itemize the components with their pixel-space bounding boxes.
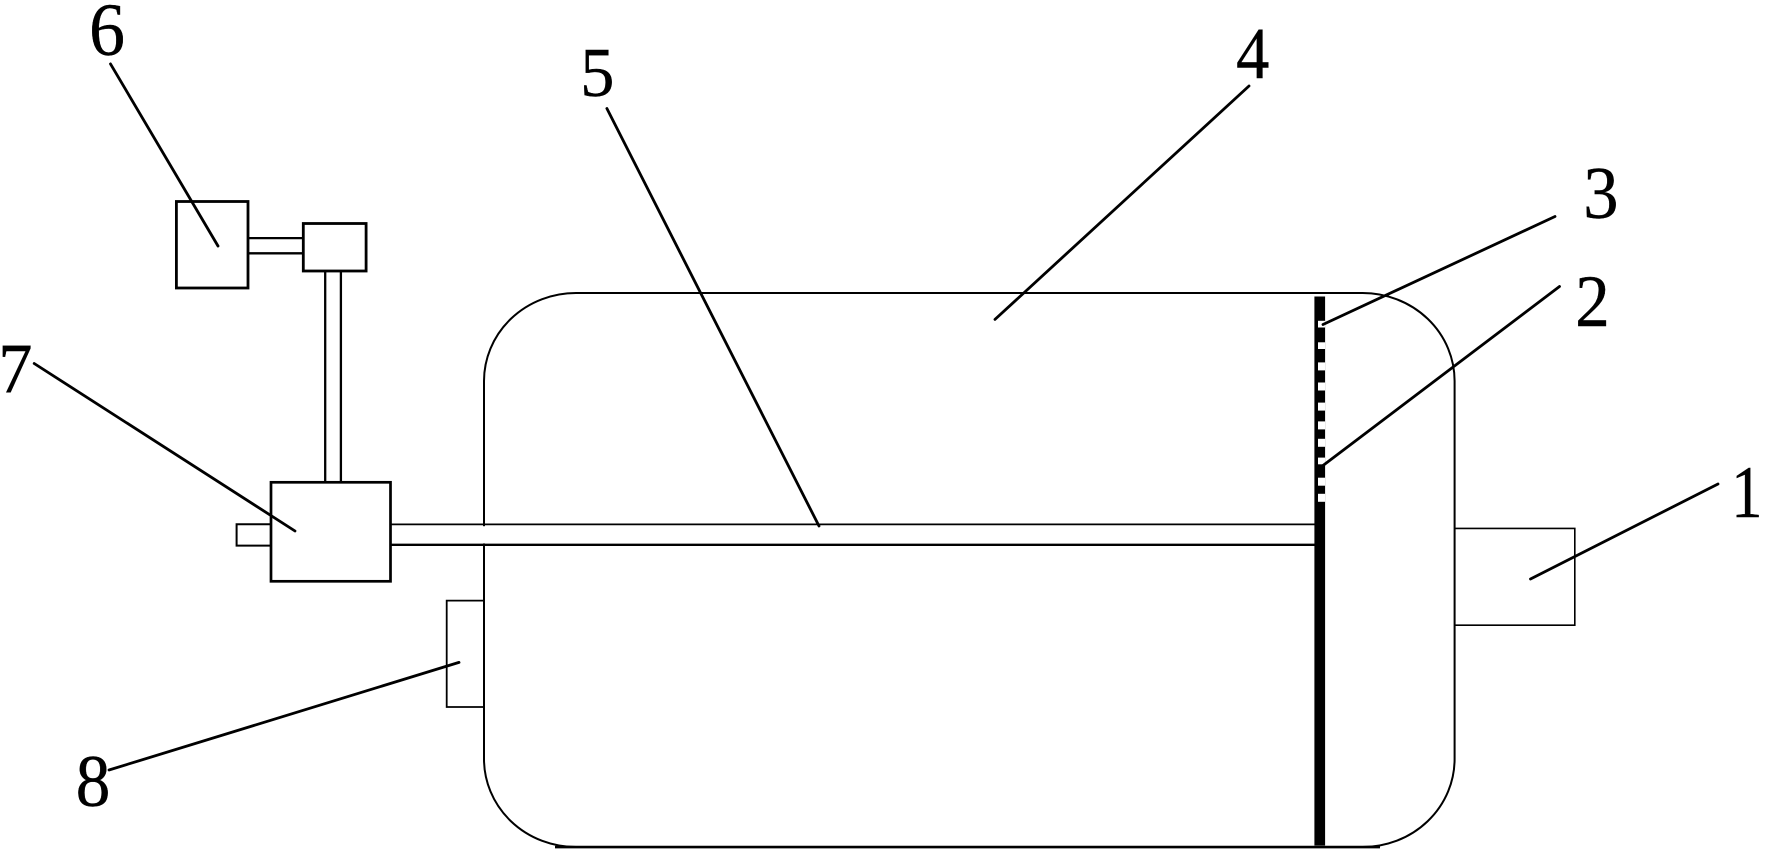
svg-text:6: 6 xyxy=(89,0,125,71)
svg-text:7: 7 xyxy=(0,330,32,409)
svg-text:4: 4 xyxy=(1236,14,1269,95)
svg-text:1: 1 xyxy=(1731,451,1762,533)
svg-text:3: 3 xyxy=(1583,152,1618,234)
svg-text:2: 2 xyxy=(1575,261,1610,343)
svg-text:5: 5 xyxy=(580,33,614,111)
svg-text:8: 8 xyxy=(76,741,111,823)
